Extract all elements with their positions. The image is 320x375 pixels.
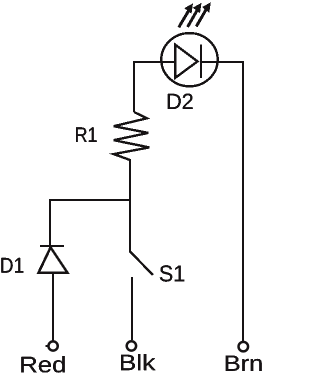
wire LED right horizontal to right rail <box>201 61 244 63</box>
terminal circle Brn <box>239 342 249 352</box>
wire resistor to switch vertical <box>129 159 131 252</box>
label Brn <box>226 356 262 371</box>
wire junction horizontal to left branch <box>49 199 131 201</box>
label Red <box>21 356 64 373</box>
terminal circle Blk <box>127 341 136 350</box>
wire switch lower contact down to Blk terminal <box>131 277 133 340</box>
wire LED left horizontal <box>133 61 175 63</box>
LED D2 diode triangle <box>175 45 197 78</box>
wire left vertical from LED to resistor <box>133 61 135 112</box>
light ray arrow 1 <box>179 3 193 27</box>
label D2 <box>168 94 193 109</box>
wire left branch vertical down to D1 <box>49 199 51 246</box>
LED D2 cathode bar <box>200 45 202 78</box>
label D1 <box>1 258 23 273</box>
diode D1 cathode bar <box>40 245 64 247</box>
LED D2 circle <box>161 33 217 86</box>
terminal circle Red <box>48 341 57 350</box>
diode D1 triangle <box>39 247 68 272</box>
tick mark left of Red terminal <box>46 345 49 347</box>
label R1 <box>76 127 96 141</box>
label Blk <box>121 354 155 370</box>
light ray arrow 3 <box>196 2 211 26</box>
resistor R1 zigzag <box>114 112 150 160</box>
label S1 <box>160 265 184 281</box>
wire D1 anode down to Red terminal <box>52 274 54 341</box>
light ray arrow 2 <box>188 3 202 27</box>
switch S1 blade <box>130 252 153 276</box>
wire right rail vertical down to Brn terminal <box>242 61 244 341</box>
